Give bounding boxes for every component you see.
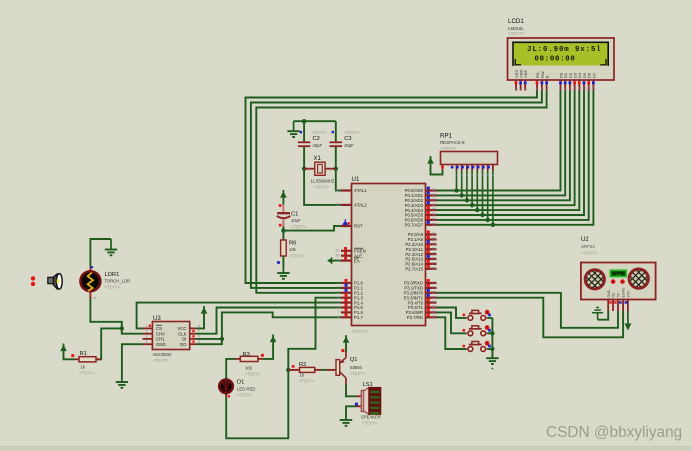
svg-text:D7: D7	[591, 72, 596, 78]
svg-text:TORCH_LDR: TORCH_LDR	[105, 279, 131, 284]
svg-text:8: 8	[337, 315, 339, 319]
svg-text:10uF: 10uF	[291, 218, 301, 223]
svg-text:11: 11	[578, 86, 582, 90]
svg-text:3: 3	[146, 335, 148, 339]
svg-text:32: 32	[432, 222, 436, 226]
svg-text:C1: C1	[291, 212, 298, 218]
svg-text:29: 29	[335, 249, 339, 253]
svg-text:23: 23	[432, 242, 436, 246]
svg-text:19: 19	[335, 188, 339, 192]
svg-text:12: 12	[432, 290, 436, 294]
svg-text:EA: EA	[354, 258, 360, 263]
svg-text:VCC: VCC	[177, 326, 186, 331]
svg-text:25: 25	[432, 252, 436, 256]
svg-text:5: 5	[337, 300, 339, 304]
svg-text:10: 10	[573, 86, 577, 90]
svg-text:<TEXT>: <TEXT>	[79, 371, 95, 376]
svg-text:P1.7: P1.7	[354, 315, 363, 320]
svg-text:2: 2	[337, 286, 339, 290]
svg-text:<TEXT>: <TEXT>	[311, 130, 327, 135]
svg-text:2: 2	[455, 174, 457, 178]
svg-text:GND: GND	[156, 342, 166, 347]
svg-text:VCC: VCC	[627, 290, 631, 298]
svg-text:<TEXT>: <TEXT>	[299, 379, 315, 384]
svg-text:3: 3	[461, 174, 463, 178]
svg-text:<TEXT>: <TEXT>	[508, 31, 525, 36]
svg-text:1: 1	[515, 88, 519, 90]
svg-text:R2: R2	[299, 362, 306, 368]
svg-text:7: 7	[559, 88, 563, 90]
svg-text:CSDN @bbxyliyang: CSDN @bbxyliyang	[546, 424, 682, 441]
svg-text:<TEXT>: <TEXT>	[350, 371, 366, 376]
svg-text:<TEXT>: <TEXT>	[344, 130, 360, 135]
svg-text:<TEXT>: <TEXT>	[352, 329, 369, 334]
svg-text:6: 6	[337, 305, 339, 309]
svg-text:R3: R3	[243, 352, 250, 358]
svg-text:JL:0.90m 9x:5l: JL:0.90m 9x:5l	[527, 46, 602, 54]
svg-text:36: 36	[432, 203, 436, 207]
svg-text:LCD1: LCD1	[508, 18, 524, 25]
svg-text:4: 4	[466, 174, 468, 178]
svg-text:1: 1	[146, 324, 148, 328]
svg-text:ADC0832: ADC0832	[153, 352, 173, 357]
svg-text:ECHO: ECHO	[622, 288, 626, 298]
svg-text:R6: R6	[289, 241, 296, 247]
svg-text:10k: 10k	[289, 247, 297, 252]
svg-text:11: 11	[432, 286, 436, 290]
svg-text:P3.7/RD: P3.7/RD	[407, 315, 423, 320]
svg-text:U2: U2	[581, 237, 589, 243]
svg-text:S8550: S8550	[350, 365, 363, 370]
svg-text:DO: DO	[180, 342, 187, 347]
svg-text:6: 6	[476, 174, 478, 178]
svg-text:RP1: RP1	[440, 133, 453, 140]
svg-text:16: 16	[432, 310, 436, 314]
svg-text:<TEXT>: <TEXT>	[362, 421, 378, 426]
svg-text:C2: C2	[313, 136, 320, 142]
svg-text:D1: D1	[237, 380, 244, 386]
svg-text:SRF04: SRF04	[581, 244, 595, 249]
svg-text:9: 9	[569, 88, 573, 90]
svg-text:<TEXT>: <TEXT>	[105, 285, 121, 290]
svg-text:9: 9	[337, 224, 339, 228]
svg-text:14: 14	[432, 300, 436, 304]
svg-text:2: 2	[146, 330, 148, 334]
svg-text:13: 13	[587, 86, 591, 90]
svg-text:LS1: LS1	[363, 382, 373, 388]
svg-text:1: 1	[441, 174, 443, 178]
svg-text:SPEAKER: SPEAKER	[361, 415, 381, 420]
svg-text:2: 2	[519, 88, 523, 90]
svg-text:37: 37	[432, 198, 436, 202]
svg-text:4: 4	[536, 88, 540, 90]
svg-text:8: 8	[487, 174, 489, 178]
svg-text:<TEXT>: <TEXT>	[581, 251, 598, 256]
svg-text:<TEXT>: <TEXT>	[289, 254, 305, 259]
svg-text:LED-RED: LED-RED	[237, 387, 255, 392]
svg-text:3: 3	[337, 291, 339, 295]
svg-text:26: 26	[432, 257, 436, 261]
svg-text:24: 24	[432, 247, 436, 251]
svg-text:4: 4	[337, 296, 339, 300]
svg-text:XTAL2: XTAL2	[354, 203, 367, 208]
svg-text:34: 34	[432, 213, 436, 217]
svg-text:DI: DI	[182, 337, 186, 342]
svg-text:CS: CS	[156, 326, 162, 331]
svg-text:17: 17	[432, 315, 436, 319]
svg-text:GND: GND	[607, 290, 611, 298]
svg-text:11.0592MHZ: 11.0592MHZ	[311, 179, 335, 184]
svg-text:20pF: 20pF	[313, 143, 323, 148]
svg-text:RST: RST	[354, 224, 363, 229]
svg-text:VEE: VEE	[523, 70, 528, 78]
svg-text:CH1: CH1	[156, 337, 165, 342]
svg-text:TR: TR	[617, 292, 621, 297]
svg-text:8: 8	[198, 324, 200, 328]
svg-text:<TEXT>: <TEXT>	[245, 372, 261, 377]
svg-text:00:00:00: 00:00:00	[535, 56, 576, 64]
svg-text:100: 100	[245, 366, 253, 371]
svg-text:7: 7	[481, 174, 483, 178]
svg-text:P2.7/A15: P2.7/A15	[405, 267, 423, 272]
svg-text:20pF: 20pF	[344, 143, 354, 148]
svg-text:1: 1	[337, 281, 339, 285]
svg-text:U3: U3	[153, 316, 161, 322]
svg-text:5: 5	[471, 174, 473, 178]
svg-text:R1: R1	[80, 351, 87, 357]
svg-text:18: 18	[335, 203, 339, 207]
svg-text:21: 21	[432, 232, 436, 236]
svg-text:22: 22	[432, 237, 436, 241]
svg-text:7: 7	[337, 310, 339, 314]
svg-text:E: E	[545, 75, 550, 78]
svg-text:<TEXT>: <TEXT>	[237, 393, 253, 398]
svg-text:27: 27	[432, 262, 436, 266]
svg-text:C3: C3	[344, 136, 351, 142]
svg-text:6: 6	[198, 335, 200, 339]
svg-text:<TEXT>: <TEXT>	[314, 185, 330, 190]
svg-text:12: 12	[616, 273, 622, 279]
svg-text:Q1: Q1	[350, 357, 358, 363]
svg-text:38: 38	[432, 193, 436, 197]
svg-text:31: 31	[335, 258, 339, 262]
svg-text:<TEXT>: <TEXT>	[153, 358, 170, 363]
svg-text:X1: X1	[314, 156, 322, 162]
svg-text:14: 14	[592, 86, 596, 90]
svg-text:3: 3	[524, 88, 528, 90]
svg-text:2: 2	[308, 167, 310, 171]
svg-text:<TEXT>: <TEXT>	[440, 146, 457, 151]
svg-text:LDR1: LDR1	[105, 272, 120, 278]
svg-text:<TEXT>: <TEXT>	[291, 225, 307, 230]
svg-text:4: 4	[146, 340, 148, 344]
svg-text:13: 13	[432, 295, 436, 299]
svg-text:12: 12	[583, 86, 587, 90]
svg-text:15: 15	[432, 305, 436, 309]
svg-text:33: 33	[432, 218, 436, 222]
svg-text:6: 6	[545, 88, 549, 90]
svg-text:7: 7	[198, 330, 200, 334]
svg-text:RESPACK-8: RESPACK-8	[440, 140, 465, 145]
svg-text:U1: U1	[352, 176, 360, 183]
svg-text:30: 30	[335, 254, 339, 258]
svg-text:1: 1	[330, 167, 332, 171]
svg-text:35: 35	[432, 208, 436, 212]
svg-text:28: 28	[432, 266, 436, 270]
svg-text:P0.7/AD7: P0.7/AD7	[405, 223, 424, 228]
svg-text:10: 10	[432, 281, 436, 285]
svg-text:8: 8	[564, 88, 568, 90]
svg-text:XTAL1: XTAL1	[354, 188, 367, 193]
svg-text:5: 5	[541, 88, 545, 90]
svg-text:5: 5	[198, 340, 200, 344]
svg-text:NC: NC	[612, 292, 616, 297]
svg-text:39: 39	[432, 188, 436, 192]
svg-text:9: 9	[492, 174, 494, 178]
